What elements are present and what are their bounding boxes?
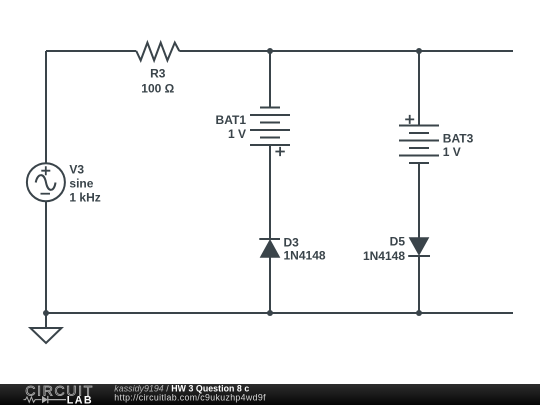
svg-text:sine: sine (69, 177, 93, 191)
node bottom D5 (416, 310, 422, 316)
svg-text:R3: R3 (150, 66, 166, 80)
wire BAT3 branch top (418, 51, 420, 126)
wire BAT1 branch top (269, 51, 271, 108)
svg-text:http://circuitlab.com/c9ukuzhp: http://circuitlab.com/c9ukuzhp4wd9f (114, 393, 266, 403)
svg-text:1N4148: 1N4148 (363, 249, 405, 263)
wire left vertical upper (45, 51, 47, 163)
battery BAT1 (250, 108, 290, 157)
svg-text:1 V: 1 V (228, 127, 246, 141)
logo diode glyph (42, 396, 66, 403)
wire BAT3 to D5 (418, 163, 420, 238)
voltage source V3 (27, 163, 65, 201)
svg-text:LAB: LAB (67, 395, 93, 405)
svg-text:D3: D3 (284, 236, 300, 250)
footer bar (0, 384, 540, 405)
ground (30, 328, 61, 343)
node A (R3 to BAT1 top) (267, 48, 273, 54)
wire bottom horizontal (46, 312, 513, 314)
wire D5 to bottom (418, 256, 420, 313)
wire ground stub (45, 313, 47, 328)
diode D5 (408, 238, 430, 256)
wire D3 to bottom (269, 257, 271, 313)
diode D3 (259, 239, 280, 257)
svg-text:D5: D5 (390, 235, 406, 249)
svg-text:BAT3: BAT3 (443, 131, 474, 145)
svg-text:BAT1: BAT1 (216, 113, 247, 127)
V3 labels (69, 163, 100, 205)
resistor R3 (136, 43, 179, 61)
BAT3 labels (443, 131, 474, 159)
node B (top wire at BAT3) (416, 48, 422, 54)
svg-text:V3: V3 (69, 163, 84, 177)
wire left vertical lower (45, 201, 47, 313)
battery BAT3 (399, 115, 439, 163)
svg-text:1 V: 1 V (443, 145, 461, 159)
wire top-left horizontal (46, 50, 136, 52)
R3 labels (141, 66, 174, 95)
BAT1 labels (216, 113, 247, 141)
svg-text:100 Ω: 100 Ω (141, 82, 174, 96)
D5 labels (363, 235, 405, 264)
node ground junction (43, 310, 49, 316)
node bottom D3 (267, 310, 273, 316)
svg-text:1 kHz: 1 kHz (69, 191, 100, 205)
wire BAT1 to D3 (269, 145, 271, 239)
svg-text:1N4148: 1N4148 (284, 249, 326, 263)
wire top horizontal right of R3 (179, 50, 513, 52)
logo squiggle resistor (24, 397, 42, 402)
D3 labels (284, 236, 326, 263)
